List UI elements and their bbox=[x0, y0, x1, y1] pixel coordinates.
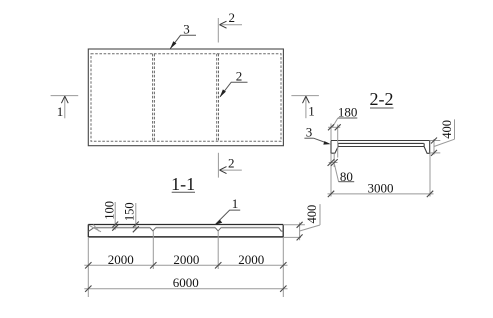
svg-text:1-1: 1-1 bbox=[171, 174, 195, 194]
svg-text:150: 150 bbox=[123, 202, 137, 221]
svg-text:400: 400 bbox=[440, 120, 454, 139]
svg-text:1: 1 bbox=[232, 196, 239, 211]
svg-text:2000: 2000 bbox=[173, 252, 199, 267]
svg-text:1: 1 bbox=[57, 104, 64, 119]
svg-text:2000: 2000 bbox=[238, 252, 264, 267]
svg-text:180: 180 bbox=[338, 104, 358, 119]
svg-text:6000: 6000 bbox=[173, 275, 199, 290]
svg-text:3: 3 bbox=[183, 22, 190, 37]
svg-text:2: 2 bbox=[229, 10, 236, 25]
svg-text:1: 1 bbox=[308, 103, 315, 118]
svg-text:3000: 3000 bbox=[368, 181, 394, 196]
svg-text:2-2: 2-2 bbox=[370, 89, 394, 109]
svg-text:100: 100 bbox=[103, 201, 117, 220]
svg-text:2000: 2000 bbox=[108, 252, 134, 267]
svg-text:400: 400 bbox=[305, 205, 319, 224]
svg-text:2: 2 bbox=[228, 156, 235, 171]
svg-text:3: 3 bbox=[306, 124, 313, 139]
svg-text:2: 2 bbox=[236, 69, 243, 84]
